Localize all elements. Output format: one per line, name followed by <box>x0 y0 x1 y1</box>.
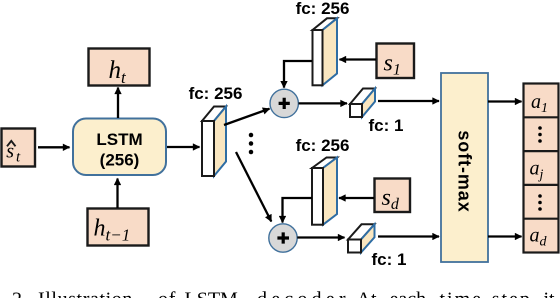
box h_t-1 <box>88 209 149 246</box>
wire s_1 to slab2 <box>340 58 377 60</box>
wire adder2 to fc1 slabB <box>297 236 344 238</box>
cell dots2 <box>538 194 542 211</box>
adder2 <box>269 224 297 252</box>
svg-text:soft-max: soft-max <box>455 130 475 212</box>
adder1 <box>270 89 298 117</box>
wire slab1 to adder1 (diagonal) <box>224 109 270 125</box>
wire slabA to softmax <box>378 100 439 102</box>
wire adder1 to fc1 slabA <box>299 102 348 104</box>
cell dots1 <box>538 126 542 143</box>
wire slabB to softmax <box>378 235 439 237</box>
dots between branches <box>249 133 254 155</box>
wire s_t to LSTM <box>38 146 70 148</box>
LSTM cell <box>73 119 166 176</box>
wire slab1 to adder2 (diagonal) <box>236 152 271 222</box>
wire softmax to a_d <box>488 235 522 237</box>
wire s_d to slab3 <box>339 197 374 199</box>
box s_d <box>375 179 411 214</box>
box s_1 <box>377 44 415 79</box>
wire LSTM to fc256 slab1 <box>167 146 200 148</box>
svg-text:(256): (256) <box>100 151 140 170</box>
attention vector column <box>524 84 559 253</box>
wire slab2 to adder1 (elbow) <box>284 61 312 88</box>
svg-text:fc: 256: fc: 256 <box>296 0 350 18</box>
svg-text:fc: 1: fc: 1 <box>369 116 404 135</box>
svg-text:fc: 256: fc: 256 <box>296 136 350 155</box>
wire LSTM to h_t <box>117 88 119 119</box>
fc256 slab1 <box>202 107 226 177</box>
box s_t_hat <box>2 129 36 167</box>
svg-text:fc: 256: fc: 256 <box>189 84 243 103</box>
fc256 slab2 <box>313 18 338 85</box>
fc1 slabA <box>350 89 375 118</box>
fc1 slabB <box>348 224 375 252</box>
svg-text:2.IllustrationofLSTMdecoder.At: 2.IllustrationofLSTMdecoder.Ateachtime-s… <box>12 289 555 298</box>
svg-text:LSTM: LSTM <box>96 130 142 149</box>
box h_t <box>89 49 150 88</box>
wire h_t-1 to LSTM <box>116 179 118 209</box>
softmax box <box>441 73 488 262</box>
wire softmax to a_1 <box>488 100 522 102</box>
wire slab3 to adder2 (elbow) <box>283 198 313 223</box>
svg-text:fc: 1: fc: 1 <box>372 250 407 269</box>
fc256 slab3 <box>312 158 337 225</box>
